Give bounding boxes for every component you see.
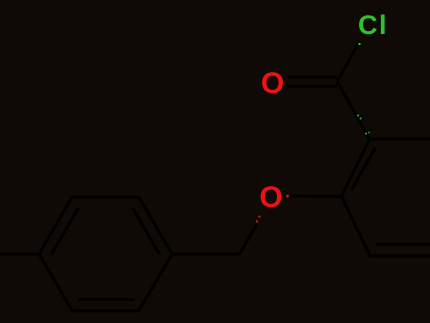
svg-text:Cl: Cl — [358, 10, 388, 40]
svg-text:O: O — [259, 181, 282, 214]
svg-text:O: O — [261, 67, 284, 100]
